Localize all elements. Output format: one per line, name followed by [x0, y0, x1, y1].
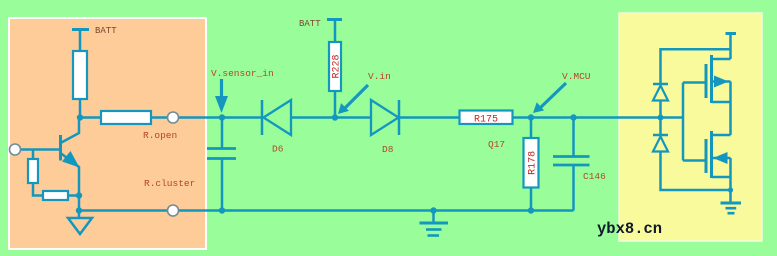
top MOSFET gate wire [683, 81, 705, 84]
wire M1 source to M2 drain [729, 102, 732, 135]
capacitor C146 plates [553, 157, 590, 166]
resistor bottom horizontal small [43, 191, 68, 200]
resistor R228 [329, 42, 343, 91]
BATT terminal bar (left) [72, 28, 89, 31]
main wire into yellow panel [574, 116, 684, 119]
V.MCU label [562, 71, 591, 82]
top wire A to D6 [222, 116, 262, 119]
wire diode1 cathode to BATT node [661, 49, 731, 84]
bottom MOSFET gate wire [683, 159, 705, 162]
wire node B to D8 [335, 116, 371, 119]
junction emitter node [76, 192, 82, 198]
gates vertical wire [682, 83, 685, 161]
top MOSFET M1 [706, 55, 731, 103]
wire emitter node down [78, 196, 81, 211]
M2 body-source rail [729, 158, 732, 177]
junction A bottom [219, 207, 225, 213]
junction mid ground [430, 207, 436, 213]
BATT label (middle) [299, 19, 321, 29]
svg-text:ybx8.cn: ybx8.cn [597, 220, 662, 238]
junction C [528, 114, 534, 120]
ground right bars [721, 203, 742, 213]
R.open label [143, 130, 177, 141]
bottom MOSFET M2 [706, 131, 731, 178]
wire node C to R178 [530, 118, 533, 139]
transistor collector [61, 118, 80, 144]
svg-text:BATT: BATT [95, 26, 117, 36]
ground mid stub [432, 211, 435, 223]
wire D8 to R175 [399, 116, 460, 119]
svg-text:R178: R178 [528, 151, 539, 175]
V.in arrow [338, 85, 368, 114]
wire D6 to node B [291, 116, 335, 119]
wire node to R.open [80, 116, 101, 119]
capacitor left: bottom lead [221, 159, 224, 211]
transistor emitter [61, 151, 80, 196]
terminal circle top [168, 112, 179, 123]
terminal circle base [10, 144, 21, 155]
svg-text:D6: D6 [272, 144, 284, 155]
wire R bottom to node [79, 99, 82, 118]
wire diode1 anode to main wire [659, 101, 662, 118]
wire R178 to bottom [530, 188, 533, 211]
capacitor left: top lead [221, 118, 224, 149]
wire diode2 anode to ground rail [661, 152, 731, 191]
wire R175 to node C [513, 116, 532, 119]
junction diode node [658, 115, 664, 121]
terminal circle bottom [168, 205, 179, 216]
svg-text:BATT: BATT [299, 19, 321, 29]
junction R178 bottom [528, 207, 534, 213]
svg-text:C146: C146 [583, 171, 606, 182]
resistor R.open [101, 111, 151, 124]
watermark ybx8.cn [597, 220, 662, 238]
ground stub left [78, 211, 81, 219]
ground mid bars [420, 223, 449, 236]
Q17 label [488, 139, 505, 150]
wire BATT to R228 [334, 20, 337, 43]
wire small R to bottom R [33, 183, 43, 196]
bottom wire [79, 209, 574, 212]
D8 label [382, 144, 394, 155]
wire BATT to R top [79, 30, 82, 52]
left orange panel [9, 18, 206, 249]
right yellow panel [619, 13, 762, 241]
BATT terminal bar (right) [726, 32, 737, 35]
resistor R175 [460, 111, 513, 126]
transistor Q1 base bar [59, 135, 62, 161]
M1 body-source rail [729, 82, 732, 103]
junction bottom-left [76, 207, 82, 213]
svg-text:D8: D8 [382, 144, 394, 155]
capacitor C146 bottom lead [572, 165, 575, 211]
capacitor C146 top lead [572, 118, 575, 157]
drain wire from BATT [729, 34, 732, 60]
wire node C to node D [531, 116, 574, 119]
svg-text:R175: R175 [474, 115, 498, 126]
diode DP1 (to BATT) [653, 84, 668, 101]
wire R228 to node B [334, 91, 337, 118]
svg-text:V.sensor_in: V.sensor_in [211, 68, 274, 79]
junction D [570, 114, 576, 120]
svg-text:R.open: R.open [143, 130, 177, 141]
transistor base wire [21, 148, 61, 151]
svg-text:V.MCU: V.MCU [562, 71, 591, 82]
resistor left vertical small [28, 159, 38, 183]
node at collector junction [77, 114, 83, 120]
ground triangle left [68, 218, 92, 234]
BATT terminal bar (middle) [327, 18, 342, 21]
diode DP2 (to GND) [653, 135, 668, 152]
diode D6 [262, 100, 291, 135]
wire M2 source to ground [729, 177, 732, 203]
junction ground rail [728, 187, 733, 192]
svg-text:Q17: Q17 [488, 139, 505, 150]
svg-text:R.cluster: R.cluster [144, 178, 195, 189]
C146 label [583, 171, 606, 182]
wire main to diode2 cathode [659, 118, 662, 136]
junction B [332, 114, 338, 120]
R.cluster label [144, 178, 195, 189]
V.sensor_in label [211, 68, 274, 79]
diode D8 [371, 100, 399, 135]
V.MCU arrow [533, 83, 566, 113]
V.in label [368, 71, 391, 82]
resistor top-left vertical [73, 51, 87, 99]
wire bottom R to emitter node [68, 194, 79, 197]
resistor R178 [524, 138, 539, 188]
BATT label (left) [95, 26, 117, 36]
wire R.open to terminal [151, 116, 222, 119]
svg-text:V.in: V.in [368, 71, 391, 82]
svg-text:R228: R228 [332, 54, 343, 78]
capacitor left plates [207, 149, 236, 159]
junction A [219, 114, 225, 120]
V.sensor_in arrow [215, 79, 228, 113]
wire base branch down [32, 150, 35, 160]
D6 label [272, 144, 284, 155]
